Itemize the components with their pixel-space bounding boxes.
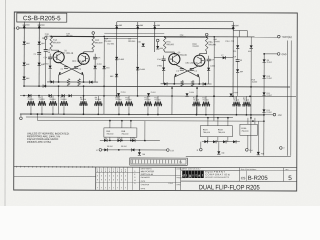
wire FF bottom rail Q1Q2: [47, 81, 98, 83]
capacitor C4: [190, 69, 198, 73]
svg-text:DRAFTSMAN: DRAFTSMAN: [141, 167, 152, 170]
svg-text:D-664: D-664: [140, 69, 146, 71]
resistor emitter b Q4: [191, 81, 194, 87]
svg-text:6: 6: [113, 179, 114, 181]
terminal P: [96, 148, 101, 152]
svg-text:750,000: 750,000: [80, 99, 86, 101]
wire vertical feed 2: [82, 86, 84, 114]
resistor box R11: [200, 126, 232, 137]
wire 233 box: [233, 30, 247, 36]
junction dots FF Q3Q4: [173, 83, 200, 85]
svg-text:B-R205: B-R205: [248, 176, 269, 182]
diode D1: [23, 42, 31, 46]
wire aux rail a: [104, 32, 164, 34]
diode D3B: [38, 63, 46, 67]
label D8: [107, 146, 113, 148]
svg-text:750,000: 750,000: [243, 100, 249, 102]
svg-text:DEC 2894-3B: DEC 2894-3B: [61, 53, 74, 55]
junction dots lower rail 1: [109, 140, 146, 142]
wire cross couple Q1-Q2 b: [59, 64, 84, 76]
diode D16: [156, 46, 164, 50]
resistor ladder R10: [115, 96, 123, 115]
sheet outer border: [14, 12, 298, 191]
note unless otherwise indicated: [27, 131, 70, 144]
svg-text:-15V: -15V: [277, 115, 282, 117]
svg-text:6: 6: [121, 179, 122, 181]
svg-text:C1: C1: [61, 69, 63, 71]
svg-text:R11A: R11A: [203, 128, 208, 131]
terminal N: [197, 142, 202, 152]
diode D17: [232, 22, 240, 29]
svg-text:C11: C11: [231, 41, 234, 43]
wire right rail 1: [286, 40, 288, 155]
diode D20: [115, 57, 125, 61]
diode D49: [221, 55, 226, 60]
DEC digital logo: [182, 171, 204, 178]
diode D33: [229, 92, 238, 96]
svg-text:+10V(A): +10V(A): [282, 35, 292, 39]
title block number boxes: [181, 167, 297, 182]
svg-text:D-662: D-662: [97, 64, 102, 66]
wire cross couple Q1-Q2 a: [59, 62, 84, 75]
svg-text:750,000: 750,000: [218, 132, 225, 134]
capacitor C3: [176, 69, 184, 73]
svg-text:C3: C3: [176, 71, 178, 73]
capacitor C5: [44, 40, 51, 87]
diode D50: [236, 61, 243, 96]
svg-text:C13: C13: [170, 150, 174, 152]
svg-text:2: 2: [117, 175, 118, 177]
svg-text:750,000: 750,000: [95, 99, 101, 101]
svg-text:R1A: R1A: [53, 39, 58, 42]
svg-text:a: a: [198, 174, 200, 178]
svg-text:7: 7: [125, 187, 126, 189]
svg-text:56: 56: [240, 60, 242, 62]
diode D38: [104, 148, 107, 151]
wire bus third: [37, 113, 265, 122]
terminal K output: [205, 33, 208, 37]
input terminal B: [14, 27, 19, 30]
junction dots bus: [30, 113, 247, 115]
wire box R5 bottoms: [110, 121, 145, 141]
diode D7: [115, 22, 123, 29]
title block conversion chart columns: [96, 167, 140, 190]
capacitor C1: [61, 67, 69, 71]
junction dots ladder top: [23, 95, 251, 97]
svg-text:CS: CS: [241, 176, 246, 180]
diode D34: [104, 138, 107, 142]
wire Q1 collector: [51, 49, 59, 52]
wire Q2 emitter drop: [83, 75, 85, 82]
capacitor C5B: [34, 53, 42, 56]
wire lower rail right: [202, 137, 240, 142]
svg-text:D-664: D-664: [267, 112, 272, 114]
diode D8: [136, 22, 144, 29]
capacitor C8: [234, 49, 242, 62]
diode D48: [262, 109, 271, 113]
svg-text:680,000: 680,000: [166, 44, 174, 46]
svg-text:750,000: 750,000: [203, 132, 210, 134]
svg-text:2: 2: [109, 175, 110, 177]
capacitor flank left Q1: [44, 54, 53, 60]
svg-text:750,000: 750,000: [202, 99, 208, 101]
diode D52: [233, 140, 236, 143]
svg-text:750,000: 750,000: [60, 99, 66, 101]
wire bus lower: [26, 116, 233, 119]
label R16: [252, 79, 258, 83]
wire vertical feed 250: [250, 49, 252, 153]
resistor ladder R14: [193, 96, 201, 115]
wire right rail 2: [290, 40, 292, 155]
svg-text:7: 7: [101, 187, 102, 189]
capacitor flank left Q3: [157, 56, 166, 62]
wire Q1 emitter drop: [58, 75, 60, 82]
svg-text:D-664: D-664: [267, 78, 272, 80]
svg-text:750,000: 750,000: [192, 46, 199, 48]
resistor emitter a Q1: [67, 79, 70, 86]
wire diode chain: [263, 54, 265, 156]
wire vertical 233: [232, 29, 234, 96]
svg-text:6: 6: [117, 179, 118, 181]
svg-text:680,000: 680,000: [208, 44, 216, 46]
svg-text:750,000: 750,000: [125, 99, 131, 101]
label R3A: [104, 37, 111, 42]
resistor R8A: [205, 37, 216, 51]
svg-text:750,000: 750,000: [27, 99, 33, 101]
svg-text:680,000: 680,000: [128, 41, 135, 43]
capacitor flank right Q2: [93, 54, 101, 60]
terminal J output: [92, 32, 95, 37]
svg-text:2: 2: [101, 175, 102, 177]
svg-text:R2A: R2A: [95, 39, 100, 42]
diode D28: [62, 94, 65, 97]
svg-text:C8: C8: [234, 56, 236, 58]
svg-text:D12 664: D12 664: [107, 43, 114, 45]
diode D44: [262, 75, 271, 79]
wire box R15 feeds: [248, 118, 255, 149]
label R9A: [213, 38, 220, 43]
wire vertical input left 2: [38, 28, 40, 86]
diode D26: [28, 94, 31, 97]
resistor ladder R12: [144, 96, 152, 115]
label C11A: [225, 40, 230, 43]
wire R7A-R8A top rail tap: [165, 36, 207, 38]
wire ladder top rail: [20, 95, 296, 98]
diode clamp right Q4: [203, 82, 206, 85]
svg-text:C14: C14: [249, 150, 252, 152]
drawing number box CS-B-R205-5: [17, 13, 67, 22]
svg-text:7: 7: [117, 187, 118, 189]
wire vertical input left 1: [23, 28, 25, 86]
resistor box R15: [240, 124, 258, 135]
resistor R7A: [163, 37, 174, 51]
svg-text:2: 2: [125, 175, 126, 177]
wire Q4 collector: [199, 51, 206, 56]
wire vertical mid 3: [154, 28, 156, 51]
wire vertical feed 4: [171, 87, 173, 115]
transistor Q3: [169, 53, 180, 64]
svg-text:DEC 2894-3B: DEC 2894-3B: [175, 55, 188, 57]
diode D2: [93, 59, 101, 82]
diode D13: [23, 22, 31, 29]
svg-text:CHECKED: CHECKED: [141, 184, 150, 186]
svg-text:2: 2: [105, 175, 106, 177]
wire vertical mid 2: [137, 28, 139, 95]
title block drafting box: [140, 167, 187, 190]
terminal GND: [277, 53, 287, 57]
svg-text:750,000: 750,000: [154, 99, 160, 101]
wire box R5 feeds: [109, 120, 132, 128]
junction dots top rails: [23, 27, 234, 38]
svg-text:i: i: [193, 174, 194, 178]
capacitor C2: [74, 67, 81, 71]
wire ground spur: [263, 53, 277, 55]
resistor ladder R8: [80, 96, 88, 115]
svg-text:l: l: [202, 174, 203, 178]
wire lower rail 3: [186, 155, 291, 157]
terminal input E: [42, 37, 47, 40]
diode D43: [263, 59, 272, 63]
svg-text:750,000: 750,000: [193, 99, 199, 101]
terminal +10V(A): [278, 35, 292, 39]
wire diode head rail: [117, 20, 233, 22]
svg-text:6: 6: [105, 179, 106, 181]
title block equipment corporation text: [205, 171, 230, 179]
transistor Q1: [53, 52, 64, 63]
edge connector strip: [130, 158, 188, 165]
label R10A: [192, 43, 199, 48]
wire vertical feed 214: [213, 36, 215, 121]
svg-text:7: 7: [109, 187, 110, 189]
diode D14: [38, 22, 46, 29]
diode D42: [257, 121, 264, 155]
svg-text:7: 7: [105, 187, 106, 189]
label D9: [121, 146, 127, 148]
svg-text:664: 664: [106, 67, 109, 69]
label C4A: [45, 33, 53, 38]
svg-text:C2: C2: [34, 54, 36, 56]
terminal T: [280, 147, 286, 151]
label Q2 type: [72, 61, 85, 63]
svg-text:ENGINEER: ENGINEER: [141, 177, 151, 179]
diode D41: [217, 142, 224, 155]
svg-text:7: 7: [113, 187, 114, 189]
diode D30: [117, 92, 126, 96]
wire vertical mid 0: [103, 36, 105, 88]
label C6: [128, 38, 135, 42]
svg-text:56: 56: [48, 52, 50, 54]
transistor Q2: [78, 53, 89, 64]
svg-text:664: 664: [248, 51, 251, 53]
svg-text:750,000: 750,000: [144, 99, 150, 101]
label D12: [107, 43, 114, 45]
resistor ladder R4: [27, 96, 35, 115]
wire mid rail: [23, 85, 290, 89]
diode clamp left Q1: [51, 80, 54, 83]
diode D39: [118, 148, 134, 151]
svg-text:R7A: R7A: [167, 41, 172, 44]
svg-text:MAYNARD. MASSACHUSETTS: MAYNARD. MASSACHUSETTS: [205, 176, 230, 179]
wire spur 224: [214, 57, 233, 59]
terminal R: [246, 149, 253, 153]
resistor ladder R16: [233, 96, 241, 115]
diode D53: [103, 66, 110, 70]
diode D45: [262, 92, 271, 96]
label C1B: [66, 33, 72, 37]
svg-text:D8 664: D8 664: [107, 146, 113, 148]
svg-text:DEC 2894-3B: DEC 2894-3B: [186, 63, 199, 65]
svg-text:5: 5: [288, 175, 292, 182]
svg-text:D-662: D-662: [157, 65, 162, 67]
svg-text:R15A: R15A: [241, 127, 247, 130]
terminal -15V: [263, 113, 282, 117]
svg-text:SIZE CODE NUMBER: SIZE CODE NUMBER: [241, 169, 257, 171]
wire vertical feed 1: [57, 86, 59, 114]
wire lower rail 2: [102, 149, 166, 151]
terminal K: [20, 114, 23, 120]
resistor ladder R11: [125, 96, 133, 115]
svg-text:664: 664: [240, 71, 243, 73]
svg-text:D-664: D-664: [233, 92, 238, 94]
wire top rail: [19, 27, 233, 30]
label C11: [231, 41, 234, 43]
label C3B: [180, 35, 186, 39]
svg-text:DEC 2894-3B: DEC 2894-3B: [72, 61, 85, 63]
svg-text:E: E: [134, 174, 135, 176]
svg-text:D-664: D-664: [121, 92, 126, 94]
diode D15: [137, 41, 145, 46]
wire FF bottom rail Q3Q4: [161, 83, 212, 85]
wire Q3 collector: [165, 51, 175, 54]
resistor ladder R15: [202, 96, 210, 115]
svg-text:CS-B-R205-5: CS-B-R205-5: [23, 15, 61, 22]
svg-text:D-662: D-662: [210, 65, 215, 67]
diode D23: [233, 37, 239, 53]
svg-text:D-664: D-664: [151, 92, 156, 94]
svg-text:750,000: 750,000: [115, 99, 121, 101]
svg-text:D-664: D-664: [119, 59, 125, 61]
resistor R2A: [92, 37, 103, 50]
svg-text:6: 6: [125, 179, 126, 181]
diode clamp right Q2: [90, 80, 93, 83]
junction dots FF Q1Q2: [58, 81, 85, 83]
resistor ladder R5: [38, 96, 46, 115]
wire cross couple Q3-Q4 a: [174, 64, 199, 77]
diode D10: [157, 61, 165, 84]
title block fine print row: [181, 168, 240, 170]
svg-text:GND: GND: [281, 54, 286, 56]
svg-text:D-662: D-662: [44, 63, 49, 65]
svg-text:g: g: [189, 174, 191, 178]
wire vertical mid 1: [116, 28, 118, 95]
diode D29: [69, 94, 72, 97]
svg-text:750,000: 750,000: [106, 133, 113, 135]
wire Q4 emitter drop: [198, 77, 200, 84]
svg-text:DATE 9-14-64: DATE 9-14-64: [141, 173, 154, 176]
resistor ladder R9: [94, 96, 102, 115]
wire lower rail 1: [100, 139, 160, 141]
diode D47: [213, 140, 216, 143]
wire aux rail b: [104, 37, 137, 39]
diode D35: [117, 138, 120, 142]
svg-text:750,000: 750,000: [233, 99, 239, 101]
svg-text:708: 708: [261, 153, 264, 155]
svg-text:750,000: 750,000: [121, 133, 128, 135]
svg-text:2: 2: [121, 175, 122, 177]
diode D2: [38, 42, 46, 46]
svg-text:i: i: [186, 174, 187, 178]
svg-text:708: 708: [142, 154, 145, 156]
svg-text:6: 6: [101, 179, 102, 181]
svg-text:d: d: [183, 173, 185, 177]
diode D36: [132, 138, 135, 142]
svg-text:750,000: 750,000: [241, 131, 248, 133]
svg-text:2: 2: [97, 175, 98, 177]
svg-text:750,000: 750,000: [38, 99, 44, 101]
wire Q3 emitter drop: [173, 77, 175, 84]
svg-text:DUAL FLIP-FLOP R205: DUAL FLIP-FLOP R205: [199, 184, 260, 191]
label Q4 type: [186, 63, 199, 65]
svg-text:D36: D36: [132, 138, 135, 140]
resistor ladder R13: [154, 96, 162, 115]
svg-text:7: 7: [97, 187, 98, 189]
resistor emitter b Q2: [78, 79, 81, 86]
svg-text:6: 6: [109, 179, 110, 181]
svg-text:D9 664: D9 664: [121, 146, 127, 148]
svg-text:750,000: 750,000: [49, 99, 55, 101]
diode D18: [138, 149, 145, 156]
wire +10V rail: [51, 35, 278, 38]
diode clamp left Q3: [164, 82, 167, 85]
resistor ladder R6: [49, 96, 57, 115]
diode D31: [147, 92, 156, 96]
diode D1: [44, 59, 52, 82]
diode D4: [22, 77, 30, 81]
terminal input F: [156, 39, 159, 46]
svg-text:C7: C7: [221, 55, 223, 57]
diode rail clamp: [43, 85, 46, 88]
wire vertical feed 3: [103, 86, 105, 114]
svg-text:D-664: D-664: [267, 62, 272, 64]
svg-text:15,000: 15,000: [252, 82, 258, 84]
svg-text:D34: D34: [104, 138, 107, 140]
title block frame: [14, 166, 297, 191]
svg-text:708: 708: [221, 153, 224, 155]
wire bus upper: [20, 113, 264, 116]
diode D51: [223, 140, 226, 143]
svg-text:680,000: 680,000: [95, 42, 103, 44]
svg-text:D-664: D-664: [267, 95, 272, 97]
diode D9: [153, 22, 161, 29]
resistor box R5: [104, 128, 137, 137]
diode D46: [204, 140, 207, 143]
diode D22: [110, 74, 118, 78]
svg-text:7: 7: [121, 187, 122, 189]
wire R1A-R2A top rail tap: [51, 36, 93, 38]
diode D32: [185, 92, 194, 96]
title block title row: [168, 183, 260, 192]
diode D11: [207, 61, 215, 84]
wire vertical feed 5: [196, 87, 198, 115]
svg-text:C2: C2: [79, 69, 81, 71]
capacitor flank right Q4: [207, 56, 215, 62]
svg-text:6: 6: [97, 179, 98, 181]
label Q1 type: [61, 50, 74, 55]
resistor ladder R17: [243, 96, 251, 115]
terminal C13: [167, 149, 174, 153]
wire cross couple Q3-Q4 b: [174, 65, 199, 77]
svg-text:D-664: D-664: [189, 92, 194, 94]
